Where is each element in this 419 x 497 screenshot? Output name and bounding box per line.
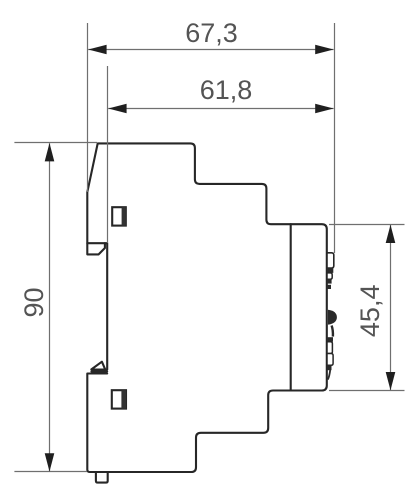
dim line 61,8: [108, 108, 333, 110]
extension line bottom y390: [329, 390, 405, 392]
front face tab cluster bottom: [327, 337, 333, 379]
dim line 90: [49, 143, 51, 471]
extension line left x87: [87, 23, 89, 192]
outer profile: [87, 143, 326, 472]
dimension 67,3: [88, 23, 335, 253]
arrowheads 90: [45, 143, 55, 472]
dim line 67,3: [88, 49, 333, 51]
svg-text:61,8: 61,8: [200, 75, 253, 105]
latch window upper: [112, 207, 126, 225]
extension line right x334: [334, 23, 336, 253]
arrowheads 61,8: [108, 104, 333, 114]
dimension 90: [14, 143, 97, 472]
front face tab cluster top: [327, 253, 334, 289]
extension line top y142: [14, 142, 97, 144]
extension line left x107: [107, 66, 109, 243]
extension line bottom y472: [14, 471, 87, 473]
arrowheads 45,4: [386, 225, 396, 391]
clip latch triangle: [91, 362, 105, 370]
bump tail: [332, 326, 333, 337]
extension line top y224: [329, 224, 405, 226]
front panel edge: [290, 224, 292, 390]
svg-text:67,3: 67,3: [185, 18, 238, 48]
dimension 45,4: [329, 225, 405, 391]
dimension 61,8: [108, 66, 334, 243]
arrowheads 67,3: [88, 45, 333, 55]
svg-text:45,4: 45,4: [355, 285, 385, 338]
clip pull tab: [96, 472, 108, 483]
svg-text:90: 90: [19, 287, 49, 317]
front face knob bump: [328, 310, 337, 325]
latch window lower: [112, 390, 126, 408]
dim line 45,4: [390, 225, 392, 390]
clip bar: [91, 370, 107, 372]
din rail recess: [87, 243, 107, 369]
device outline: [87, 143, 326, 482]
